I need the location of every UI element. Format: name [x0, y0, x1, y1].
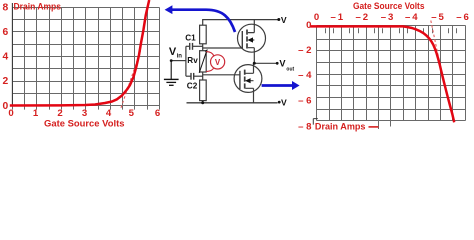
svg-text:in: in [177, 54, 183, 60]
right chart label leader dash [369, 126, 379, 128]
node Vin dot [170, 59, 173, 62]
svg-text:– 3: – 3 [381, 12, 394, 23]
svg-text:– 6: – 6 [456, 12, 469, 23]
svg-text:– 6: – 6 [298, 95, 311, 106]
left chart dashed tangent line [121, 50, 141, 108]
svg-text:out: out [286, 66, 294, 72]
right chart axis ticks [317, 28, 466, 33]
node rail junction dot [201, 101, 204, 104]
svg-text:– 2: – 2 [298, 45, 311, 56]
left chart x labels [8, 108, 160, 119]
svg-text:6: 6 [155, 108, 160, 119]
right chart corner hook [313, 119, 318, 125]
svg-text:Drain Amps: Drain Amps [315, 122, 366, 132]
variable resistor Rv [200, 51, 207, 72]
left chart red transfer curve [10, 0, 149, 106]
svg-text:C2: C2 [187, 82, 198, 91]
transistor Q1 (top MOSFET) [238, 20, 266, 64]
node Vout terminal dot [276, 62, 279, 65]
svg-text:Rv: Rv [187, 56, 198, 65]
right chart y labels [298, 20, 312, 133]
svg-text:1: 1 [33, 108, 39, 119]
svg-text:– 1: – 1 [331, 12, 344, 23]
svg-text:5: 5 [129, 108, 135, 119]
svg-text:– 8: – 8 [298, 122, 312, 133]
svg-text:0: 0 [314, 12, 319, 23]
transistor Q2 (bottom MOSFET) [234, 63, 262, 103]
svg-text:– 5: – 5 [431, 12, 444, 23]
svg-text:2: 2 [57, 108, 62, 119]
voltmeter V leads [206, 52, 214, 72]
node +V terminal dot [277, 18, 280, 21]
left chart axis ticks [13, 106, 160, 110]
resistor R2 [200, 80, 207, 101]
svg-text:4: 4 [2, 52, 8, 63]
wire Vin [171, 60, 186, 62]
svg-text:V: V [215, 58, 221, 67]
left chart y-axis line [11, 3, 13, 106]
node Vout junction dot [253, 62, 256, 65]
ground [164, 61, 179, 85]
left chart y labels [2, 3, 8, 112]
svg-text:Gate Source Volts: Gate Source Volts [44, 119, 125, 129]
svg-text:C1: C1 [185, 34, 196, 43]
-V rail wire [187, 102, 278, 104]
svg-text:– 2: – 2 [356, 12, 369, 23]
wire bottom gate [203, 74, 240, 76]
blue annotation arrow left [171, 10, 236, 32]
svg-text:V: V [279, 59, 286, 69]
svg-text:6: 6 [2, 27, 8, 38]
svg-text:– 4: – 4 [298, 70, 312, 81]
svg-text:Gate Source Volts: Gate Source Volts [353, 1, 425, 11]
right chart grid [317, 26, 466, 121]
svg-text:4: 4 [106, 108, 112, 119]
svg-text:0: 0 [8, 108, 13, 119]
svg-text:3: 3 [82, 108, 87, 119]
input corner wire [185, 46, 187, 76]
wire gate column upper [202, 44, 204, 51]
+V rail wire [203, 20, 279, 26]
left chart grid [13, 8, 160, 106]
voltmeter V [211, 55, 225, 69]
svg-text:8: 8 [2, 3, 8, 14]
right chart top x labels [314, 12, 469, 23]
svg-text:0: 0 [306, 20, 311, 31]
right chart red transfer curve [310, 26, 454, 122]
right chart gridline extensions near bottom label [379, 121, 391, 130]
node -V terminal dot [278, 101, 281, 104]
svg-text:V: V [281, 97, 287, 107]
svg-text:Drain Amps: Drain Amps [14, 1, 62, 11]
right chart dashed tangent line [431, 21, 440, 63]
wire Vout [254, 62, 277, 64]
svg-text:– 4: – 4 [405, 12, 418, 23]
blue annotation arrow right [262, 84, 293, 87]
resistor R1 [200, 25, 207, 44]
capacitor C1 [186, 43, 203, 50]
svg-text:V: V [281, 15, 287, 25]
wire R2 to -V rail [202, 101, 204, 103]
svg-text:2: 2 [2, 76, 8, 87]
wire gate column lower [202, 72, 204, 80]
capacitor C2 [186, 73, 203, 80]
wire top gate [203, 47, 243, 49]
